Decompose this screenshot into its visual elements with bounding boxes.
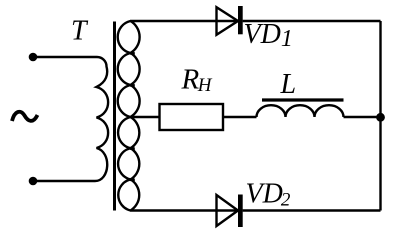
diode VD1 triangle xyxy=(217,7,239,35)
winding knot xyxy=(130,147,135,150)
resistor RH body xyxy=(160,104,224,130)
wire: secondary bottom to diode VD2 xyxy=(131,209,243,211)
svg-text:L: L xyxy=(280,69,297,100)
winding knot xyxy=(130,84,135,87)
wire: VD1 to right rail xyxy=(243,20,381,22)
transformer secondary winding upper half xyxy=(118,21,140,53)
terminal dot bottom-left xyxy=(29,177,38,186)
inductor L winding bumps xyxy=(257,105,344,117)
right rail wire xyxy=(379,21,381,211)
transformer primary winding (with top/bottom lead wires) xyxy=(33,57,108,181)
wire: resistor to inductor xyxy=(223,116,257,118)
svg-text:VD2: VD2 xyxy=(246,179,291,211)
AC source symbol ~ xyxy=(12,112,38,121)
svg-text:VD1: VD1 xyxy=(244,19,293,52)
transformer core xyxy=(113,22,116,211)
wire: secondary top to diode VD1 xyxy=(131,20,243,22)
transformer secondary winding lower half xyxy=(118,117,139,148)
winding knot xyxy=(130,179,135,182)
wire: VD2 to right rail xyxy=(243,209,381,211)
center tap wire xyxy=(131,116,160,118)
terminal dot top-left xyxy=(29,53,38,62)
diode VD2 cathode bar xyxy=(238,195,243,228)
diode VD2 triangle xyxy=(217,195,239,226)
svg-text:RH: RH xyxy=(181,63,213,96)
winding knot xyxy=(130,52,135,55)
wire: inductor to right rail junction xyxy=(344,116,381,118)
junction dot node xyxy=(376,113,385,122)
inductor L core bar xyxy=(262,98,344,101)
svg-text:T: T xyxy=(71,16,89,47)
diode VD1 cathode bar xyxy=(238,6,243,34)
